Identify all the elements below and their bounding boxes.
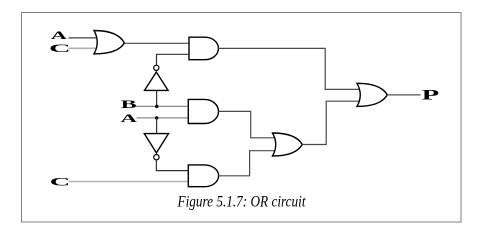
- and-gate U6 (bottom): [188, 165, 218, 187]
- inverter D1 (points down): [144, 134, 168, 153]
- or-gate U8 (output): [357, 83, 387, 106]
- wire D1 output to AND U6: [156, 160, 188, 171]
- inverter U3 bubble: [154, 65, 159, 70]
- or-gate U1: [94, 31, 124, 54]
- wire C to OR1: [69, 47, 98, 49]
- svg-text:B: B: [121, 97, 137, 111]
- svg-text:A: A: [120, 111, 137, 125]
- svg-text:Figure 5.1.7: OR circuit: Figure 5.1.7: OR circuit: [177, 194, 307, 211]
- wire node A down to inverter U5in: [156, 118, 158, 134]
- wire U3 input from node B: [156, 90, 158, 106]
- wire A to OR1: [69, 37, 98, 39]
- wire inverter U3 output up to AND U2: [157, 54, 190, 65]
- wire C to AND U6: [69, 181, 189, 183]
- inverter U3 (points up): [145, 72, 169, 90]
- wire OR U8 output to P: [387, 94, 420, 96]
- and-gate U4 (middle): [188, 99, 218, 123]
- wire AND U6 output to OR U7 bottom input: [219, 151, 279, 176]
- wire AND U2 output to OR U8 top input: [218, 48, 362, 89]
- svg-text:C: C: [49, 41, 71, 55]
- wire OR U7 output to OR U8 bottom input: [302, 101, 362, 144]
- or-gate U7 (middle right): [273, 133, 303, 156]
- svg-text:P: P: [422, 88, 440, 104]
- wire OR1 output to AND U2: [124, 42, 189, 44]
- wire AND U4 output to OR U7 top input: [219, 111, 280, 137]
- wire B to AND U4: [136, 105, 188, 107]
- and-gate U2 (top): [189, 37, 218, 60]
- wire A to AND U4: [137, 117, 189, 119]
- inverter D1 bubble: [154, 155, 159, 160]
- svg-text:C: C: [50, 175, 71, 189]
- node B junction dot: [155, 105, 158, 108]
- node A junction dot: [155, 116, 158, 119]
